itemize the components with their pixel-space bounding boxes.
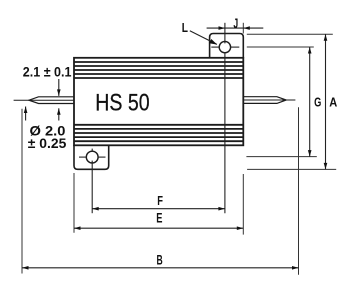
svg-text:L: L [182, 20, 188, 35]
svg-text:A: A [329, 95, 337, 110]
svg-text:F: F [157, 193, 163, 208]
svg-text:B: B [157, 251, 163, 267]
svg-text:2.1 ± 0.1: 2.1 ± 0.1 [23, 64, 72, 79]
svg-text:± 0.25: ± 0.25 [28, 136, 67, 151]
svg-text:E: E [156, 211, 162, 226]
svg-text:J: J [233, 16, 238, 31]
svg-text:HS 50: HS 50 [95, 91, 149, 117]
svg-text:G: G [314, 95, 321, 110]
